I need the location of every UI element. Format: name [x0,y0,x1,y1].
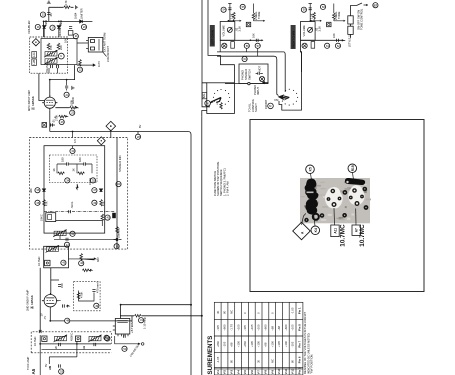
rotary wafer dots function [281,89,298,106]
svg-text:+88: +88 [270,326,274,331]
wire phono bottom rail [225,83,268,85]
callout K4 [311,226,320,235]
svg-text:+88: +88 [264,342,268,347]
svg-text:59: 59 [303,8,306,12]
svg-text:455KC: 455KC [69,333,73,341]
wire bottom rail of MPX [54,236,117,240]
svg-text:V-1: V-1 [216,370,220,375]
resistor R17 470 [116,227,119,234]
svg-text:10.7MC: 10.7MC [359,224,366,247]
ground at top [47,1,51,3]
dashed box ratio det transformer T1 [30,37,68,73]
node 50 [122,346,127,351]
capacitor C25 [66,238,68,241]
boxed A7 [352,225,360,235]
svg-text:+100: +100 [270,341,274,348]
rotary wafer dots balance [213,89,230,106]
coil L9 [88,335,102,342]
node 54 [221,7,226,12]
svg-text:3.3K: 3.3K [318,26,322,32]
socket pins right donuts [350,189,364,205]
svg-text:LEFT CHAN: LEFT CHAN [211,30,215,45]
svg-text:2K: 2K [54,346,58,349]
callout R19 [348,164,357,173]
svg-text:+100: +100 [257,324,261,331]
svg-text:30: 30 [257,359,261,363]
arrow to all control [263,82,269,84]
lamp circled X left [222,43,227,48]
chassis photo halftone [300,178,370,223]
wire FL1 out [56,221,103,226]
node 26 [59,119,64,124]
wire bottom row left [220,39,262,41]
arrowheads tone chain [342,4,368,42]
node 39 [92,200,97,205]
svg-text:+105: +105 [277,341,281,348]
node 21 [73,34,78,39]
capacitor C30 150 [58,285,61,287]
svg-text:TO IF AMP: TO IF AMP [26,357,30,370]
wire grid row left [229,19,240,21]
svg-text:2. FM 4. AM: 2. FM 4. AM [226,181,230,196]
trimmer box C5 [68,31,73,36]
svg-text:1V: 1V [40,313,44,316]
wire grid row right [310,19,321,21]
svg-text:46: 46 [80,261,83,265]
capacitor C7 [51,65,53,68]
svg-text:10.7MC: 10.7MC [37,257,41,266]
svg-text:STEREO IND: STEREO IND [118,156,122,172]
svg-text:+860: +860 [243,341,247,348]
svg-text:+105: +105 [250,324,254,331]
svg-text:SHAFT: SHAFT [254,103,258,112]
MPX inner shield box [44,146,105,233]
left channel input cap [228,4,231,22]
svg-text:VOLUME: VOLUME [302,25,306,37]
ring below blobs [313,214,319,220]
resistor R16 [101,214,104,221]
svg-text:57: 57 [257,44,260,48]
svg-text:80: 80 [223,310,227,314]
arrow at R19b [89,269,92,271]
diode X4 left [42,189,45,192]
svg-text:40: 40 [107,216,110,220]
capacitor C42 [94,343,96,346]
wire node33 stub to bus [72,132,74,149]
resistor R5 vertical [57,43,60,50]
resistor R12 3K [58,172,65,175]
wire AFC loop [79,291,95,302]
wire V2 cathode to rail [50,310,132,321]
svg-text:+860: +860 [284,324,288,331]
stray pin dots [305,188,368,222]
function wiper black arrow [284,96,289,100]
svg-text:PHONO: PHONO [241,70,245,80]
wire grid from T1 [39,73,45,100]
svg-text:NC: NC [230,310,234,314]
svg-text:+88: +88 [230,342,234,347]
svg-text:48V: 48V [96,257,100,262]
wire left channel to switch inner [217,56,278,95]
wire diamond stub [110,130,112,138]
diamond tie point A2 [97,137,105,145]
svg-text:20: 20 [83,25,86,29]
capacitor C43 [59,364,61,367]
wire diode stubs into T1 [44,28,88,73]
svg-text:55: 55 [242,5,245,9]
wire long horizontal bus from V1 output [50,132,191,305]
svg-text:DOUBLER: DOUBLER [27,20,31,33]
node 51 [105,336,110,341]
wire tone row right [334,4,344,21]
tie point B7 [373,3,378,8]
svg-text:34: 34 [66,178,69,182]
svg-text:-1.7S: -1.7S [230,324,234,331]
resistor R20 470K [77,293,80,300]
capacitor C31 [63,304,65,307]
svg-text:A5: A5 [31,368,36,374]
callout K5 [306,165,315,174]
svg-text:INPUT: INPUT [256,87,260,95]
svg-text:41: 41 [71,232,74,236]
svg-text:L2B: L2B [32,60,36,65]
AM converter dashed enclosure [31,332,111,353]
antenna terminal strip J1 [86,37,106,56]
svg-text:150: 150 [60,283,64,288]
resistor 2MEG right [333,13,336,20]
coil L6 [46,245,60,252]
node 42 [64,242,69,247]
phono stereo switch box [239,64,268,84]
node 40 [105,215,110,220]
resistor R14 47K left rail [43,200,46,207]
tube chart right header Pin labels [298,307,302,363]
node 25 [70,110,75,115]
resistor R2 [64,6,71,9]
svg-text:17: 17 [51,26,54,30]
tube V2 2nd snd IF amp 1/2 12BA6 [42,293,59,310]
balance control box [207,83,235,114]
svg-text:+88: +88 [277,326,281,331]
svg-text:10.7MC: 10.7MC [340,224,347,247]
svg-text:1.5K: 1.5K [310,13,314,19]
svg-text:LIMITER: LIMITER [80,8,84,19]
electrolytic blob gap highlight [307,192,314,194]
node 43 [116,182,121,187]
svg-text:(STYLE 2: (STYLE 2 [348,35,352,47]
svg-text:V-9: V-9 [270,370,274,375]
svg-text:35: 35 [92,178,95,182]
capacitor C4 [69,27,72,29]
wire T3 secondary down to V2 [40,268,59,332]
capacitor C20 180 [66,162,68,165]
coil L2B winding [44,57,58,64]
svg-text:80: 80 [291,359,295,363]
diode X5 right [99,189,102,192]
ground right of R2 [76,5,78,9]
wire bal top link [202,83,210,107]
wire left box stubs down [220,40,258,56]
svg-text:-1.05: -1.05 [216,356,220,363]
svg-text:53: 53 [60,370,63,374]
svg-text:TONE: TONE [257,11,261,19]
svg-text:10K: 10K [252,33,256,38]
diamond A tie point [293,222,311,240]
svg-text:V-5: V-5 [243,370,247,375]
node 24 [64,92,69,97]
node 28 on bus [137,132,139,135]
svg-text:-105: -105 [223,341,227,347]
diode X3 1N34 [80,20,83,23]
tube chart table grid [214,302,303,375]
slug box T4 [42,336,47,341]
svg-text:A11: A11 [334,228,338,234]
svg-text:B7: B7 [374,3,378,7]
svg-text:V-4: V-4 [236,370,240,375]
svg-text:+100: +100 [284,341,288,348]
node 61 [325,43,330,48]
svg-text:6V: 6V [138,125,142,128]
leader K5 [311,174,312,180]
svg-text:V-6: V-6 [250,370,254,375]
svg-text:Pin 1: Pin 1 [298,307,302,314]
svg-text:37: 37 [93,188,96,192]
boxed label L2A [32,52,37,58]
svg-text:+100: +100 [257,341,261,348]
boxed label L2B [32,59,37,65]
boxed contact right [311,42,315,49]
svg-text:47K: 47K [45,201,49,206]
resistor bal lower [220,103,223,110]
capacitor out right [337,39,339,42]
svg-text:28: 28 [137,135,140,139]
svg-text:K5: K5 [309,167,313,171]
svg-text:L2A: L2A [32,52,36,57]
node 45 [61,260,66,265]
leader K4 [314,213,316,226]
resistor R4 vertical [47,43,50,50]
node 59 [301,7,306,12]
svg-text:A7: A7 [355,228,359,232]
leader A7 [355,209,357,226]
capacitor C40 on rail [39,330,41,333]
svg-text:COLOR DOT: COLOR DOT [106,46,110,62]
svg-text:50: 50 [123,347,126,351]
svg-text:470K: 470K [80,292,84,298]
wire top rail [49,7,74,21]
svg-text:+105: +105 [250,341,254,348]
svg-text:+B TERM: +B TERM [130,321,134,333]
svg-text:TONE CONTROL: TONE CONTROL [360,8,364,30]
plate arrow V2 [59,301,69,307]
pot VOLUME right [308,27,313,32]
contact circle on rail [248,82,250,84]
svg-text:"FM" POSITION.: "FM" POSITION. [310,354,314,374]
svg-text:V-12: V-12 [291,368,295,374]
svg-text:43: 43 [117,182,120,186]
lamp I2 circled X [259,76,264,81]
wire left channel to switch outer [217,52,285,92]
right channel input cap [309,4,312,22]
svg-text:64: 64 [244,57,247,61]
node 34 [65,178,70,183]
photo texture speckle [301,179,371,222]
node 33 pin callout [70,148,75,153]
svg-text:24: 24 [66,93,69,97]
svg-text:SWITCH: SWITCH [247,69,251,80]
svg-text:38K: 38K [29,188,33,193]
capacitor C26 arrows [114,238,122,241]
AFC dashed box [74,282,101,311]
svg-text:180: 180 [78,157,82,162]
svg-text:2ND SND IF AMP: 2ND SND IF AMP [26,289,30,311]
svg-text:Pin 7: Pin 7 [298,340,302,347]
pot VOLUME left [227,27,232,32]
capacitor C23 0.5mm [69,210,71,213]
node 46 [79,261,84,266]
svg-text:36: 36 [36,188,39,192]
svg-text:VOLUME: VOLUME [222,25,226,37]
svg-text:38: 38 [36,201,39,205]
node 41 [70,231,75,236]
svg-text:IN60: IN60 [44,19,48,25]
tube pin circle 9 [58,53,64,59]
wire right column rail [116,138,118,250]
leader A [302,214,306,225]
wire detector rail [44,21,93,37]
lamp circled X right [302,43,307,48]
socket white left [325,187,343,209]
function switch frame [279,72,302,110]
svg-text:FRONT: FRONT [264,99,268,109]
wire right box stub [301,40,302,72]
svg-text:52: 52 [105,336,108,340]
slug box T3 [45,260,50,265]
svg-text:26: 26 [61,120,64,124]
svg-text:270K: 270K [55,115,59,121]
svg-text:STEREO: STEREO [244,69,248,80]
svg-text:NC: NC [270,359,274,363]
svg-text:1-10 meg: 1-10 meg [143,317,147,329]
alignment chart box (right) [250,120,424,292]
svg-text:-105: -105 [243,325,247,331]
svg-text:19KC: 19KC [40,214,44,221]
node 53 [59,369,64,374]
node 35 [90,178,95,183]
svg-text:BAL: BAL [202,93,206,99]
svg-text:V-3: V-3 [230,370,234,375]
node 38 [35,200,40,205]
svg-text:5V: 5V [44,364,48,367]
node 49 [94,303,99,308]
resistor R15 47K right rail [100,200,103,207]
wire plate out with resistor R8 [55,107,77,109]
leader A11 [333,208,336,225]
svg-text:61: 61 [326,44,329,48]
boxed cap M right [327,22,331,26]
diode X1 [43,26,46,29]
boxed cap M left [246,22,250,26]
circled W [205,101,211,107]
svg-text:3K: 3K [52,168,56,171]
svg-text:39: 39 [93,201,96,205]
svg-text:18: 18 [116,244,119,248]
node 15 [40,12,45,17]
svg-text:NOT: NOT [258,65,262,71]
capacitor C10 [65,86,68,88]
svg-text:60: 60 [322,5,325,9]
IF can dark bar [345,178,365,185]
capacitor C21 180 [84,162,86,165]
wire bus continues down to sheet edge [190,305,192,375]
svg-text:Pin 8: Pin 8 [298,324,302,331]
coil L8 [54,335,68,342]
arrow test point down [76,184,78,190]
resistor R6 vertical on 117V [79,60,82,67]
wire from balance pot down [201,116,203,375]
resistor R8 [70,106,77,109]
electrolytic cap blob upper [305,179,319,200]
svg-text:56: 56 [246,44,249,48]
svg-text:470 mmf: 470 mmf [96,282,100,293]
resistor R9 [59,115,66,118]
svg-text:+860: +860 [223,324,227,331]
slug box T5 [76,336,81,341]
svg-text:PHASE: PHASE [45,63,49,72]
svg-text:-105: -105 [216,325,220,331]
svg-text:V-2: V-2 [223,370,227,375]
svg-text:3.3K: 3.3K [237,26,241,32]
svg-text:117V: 117V [97,61,101,67]
wire bottom row right [301,39,343,41]
svg-text:Ⓐ 12BA6: Ⓐ 12BA6 [29,295,34,309]
svg-text:.5mm: .5mm [70,201,74,208]
svg-text:48: 48 [66,319,69,323]
MPX adapter dashed enclosure [30,138,128,250]
MPX filter dashed box [50,155,98,183]
diode X2 [57,26,60,29]
svg-text:45: 45 [62,261,65,265]
ground at C10 [72,86,74,90]
svg-text:Pin 5: Pin 5 [298,367,302,374]
boxed crystal Y1 [42,123,47,128]
diamond tie point B [32,39,39,46]
bar white dot [346,181,348,183]
wire filter links [57,164,92,173]
svg-text:100K: 100K [70,100,74,106]
capacitor C8 [57,65,59,68]
leader R19 [353,173,354,180]
svg-text:V-11: V-11 [284,368,288,374]
node 36 [35,188,40,193]
wire tone row left [254,4,264,21]
tube pin circle V3 [104,335,109,340]
capacitor C32 [92,290,95,292]
resistor 1.5K right [313,12,316,19]
node 48 [65,318,70,323]
tube chart bottom header row [216,367,302,374]
svg-text:.05: .05 [49,13,53,17]
svg-text:-1.05: -1.05 [291,307,295,314]
svg-text:80: 80 [230,359,234,363]
solid box T1 can [41,39,77,65]
resistor R19b [82,269,89,272]
svg-text:15: 15 [42,13,45,17]
node 37 [92,188,97,193]
circled M front [268,103,274,109]
coil L2A winding [44,50,58,57]
svg-text:1N34: 1N34 [74,12,78,19]
